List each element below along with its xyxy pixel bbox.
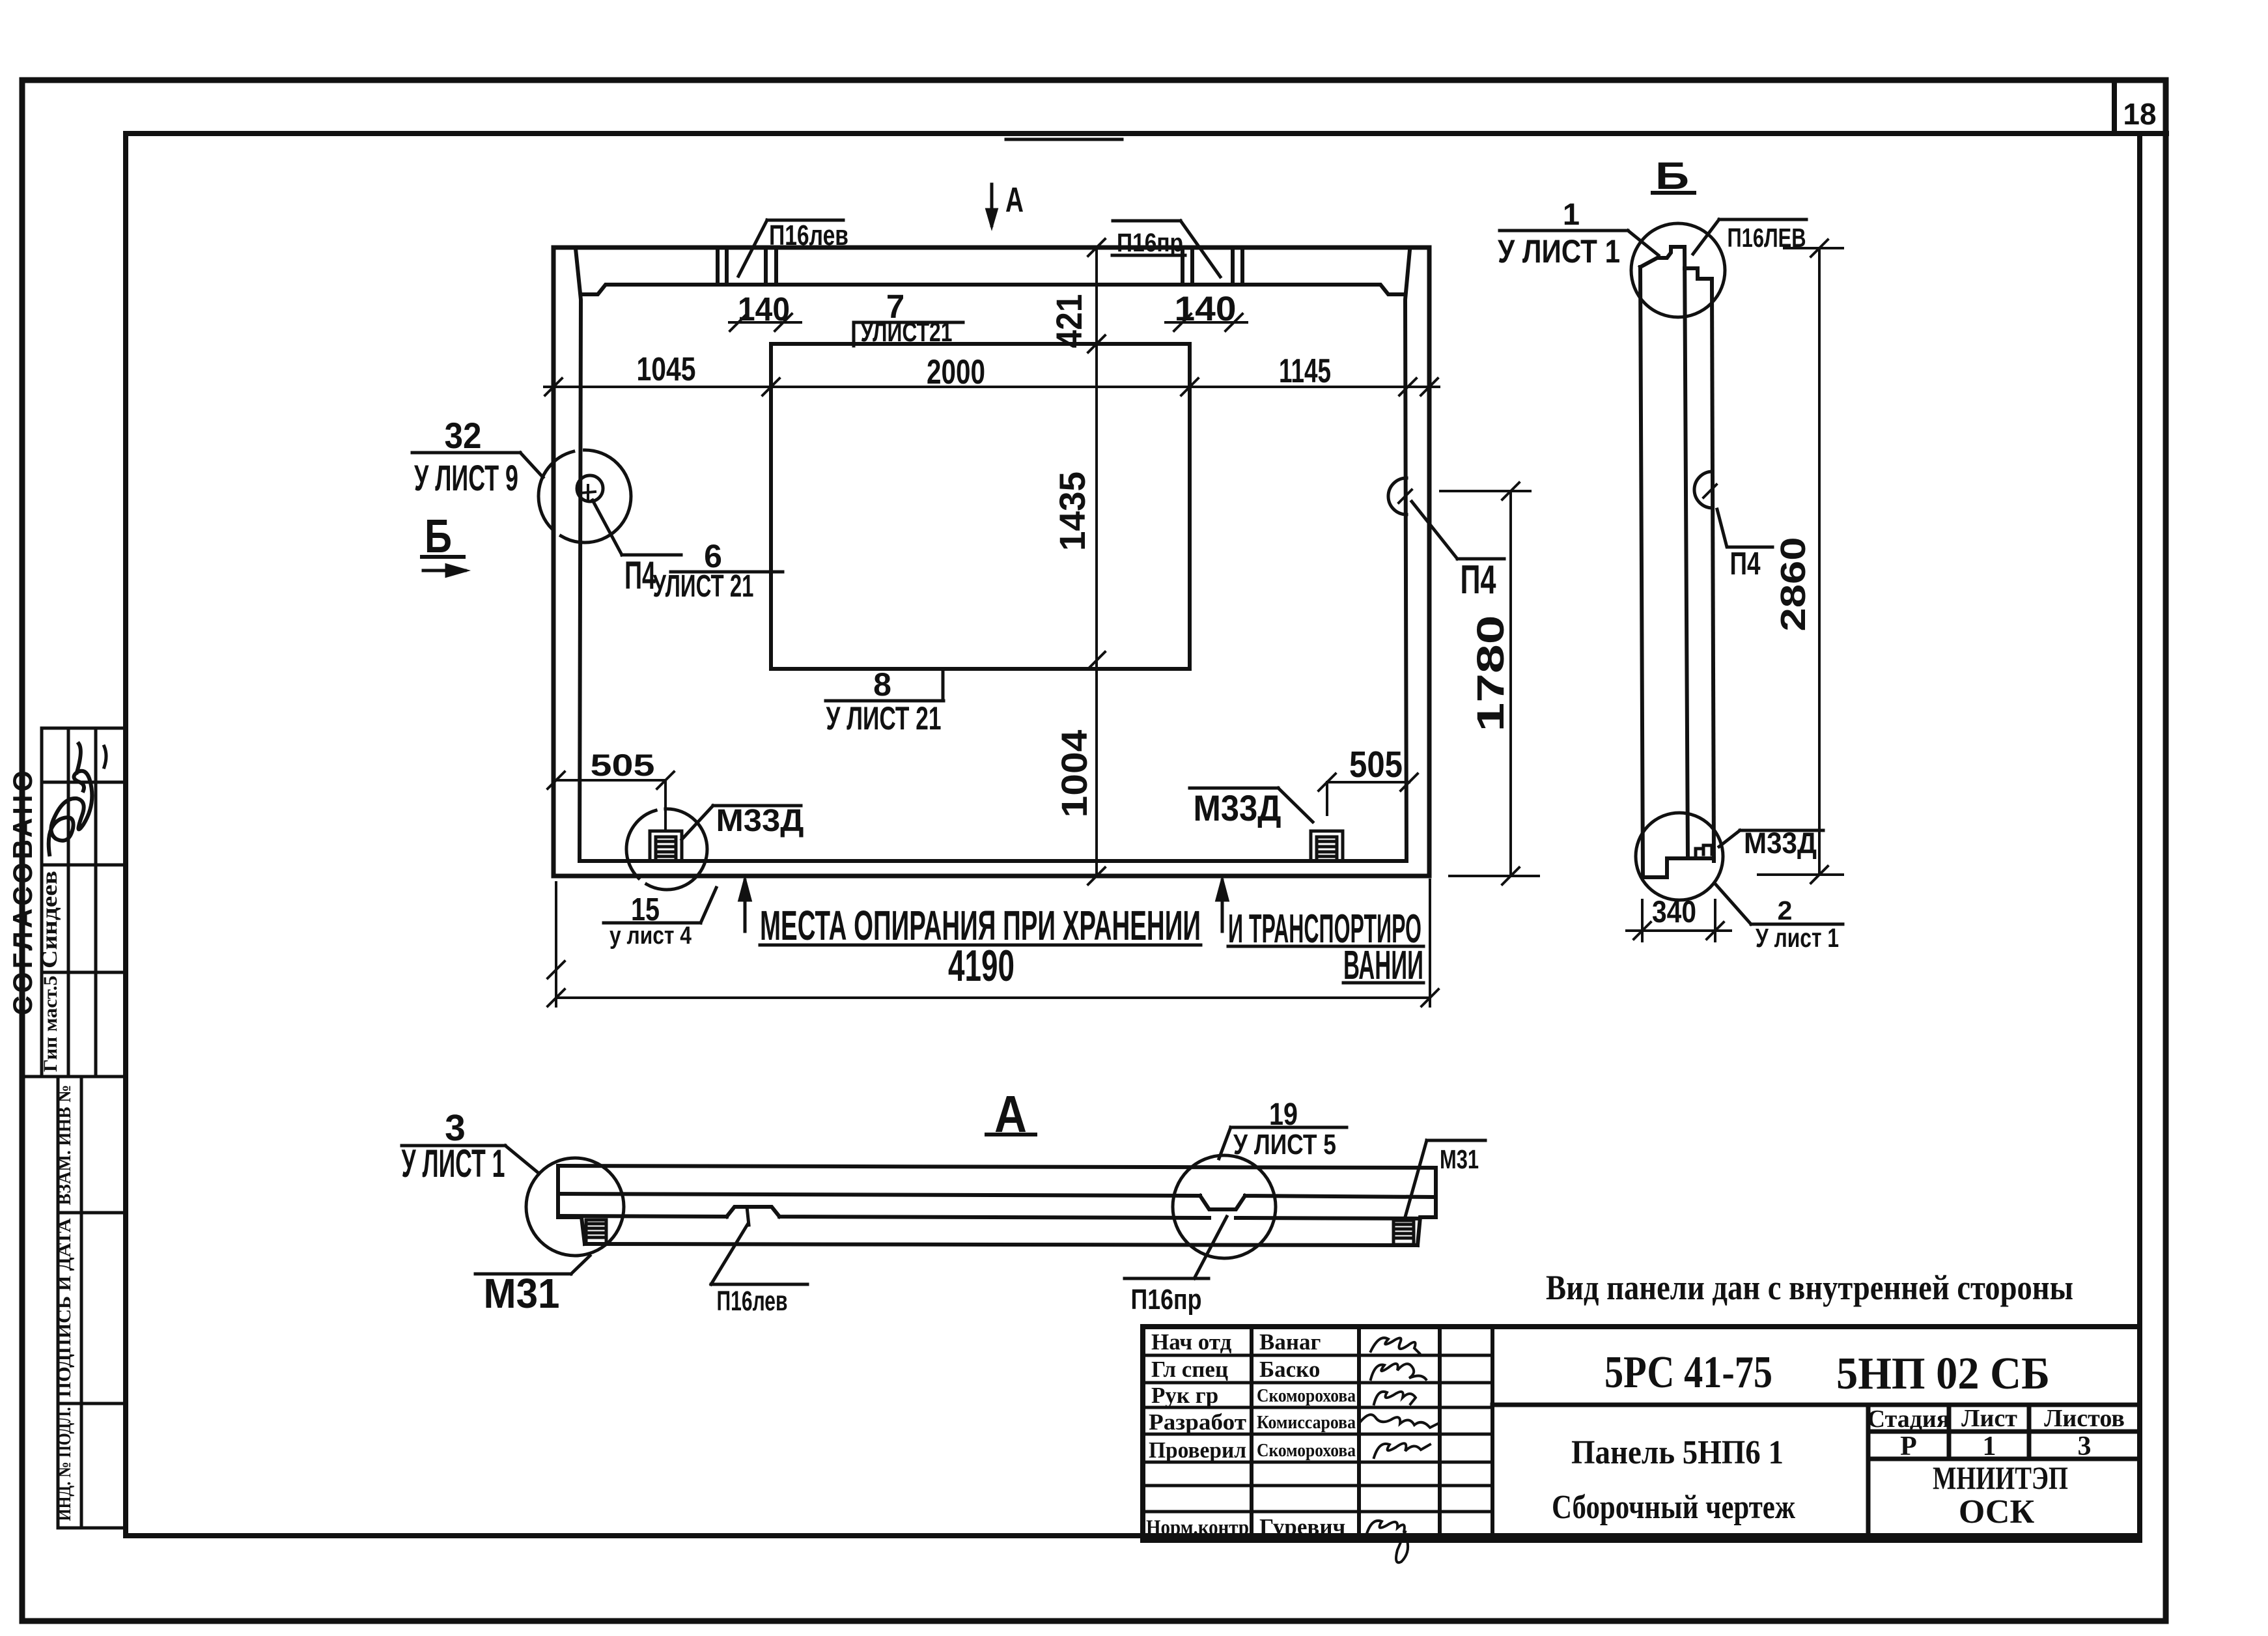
svg-text:Р: Р [1900, 1431, 1917, 1461]
dim 505 right [1319, 774, 1418, 815]
svg-text:Вид панели дан с внутренней ст: Вид панели дан с внутренней стороны [1546, 1268, 2073, 1307]
left stamp lower block grid [58, 1077, 126, 1528]
svg-text:У ЛИСТ 5: У ЛИСТ 5 [1233, 1129, 1336, 1161]
panel outline front view [553, 247, 1429, 876]
svg-text:У ЛИСТ 9: У ЛИСТ 9 [414, 457, 518, 498]
B view right line [1712, 288, 1714, 861]
svg-text:Листов: Листов [2044, 1405, 2125, 1432]
svg-text:2860: 2860 [1774, 537, 1813, 632]
signature Basko [1371, 1364, 1426, 1379]
text underline mesta2 [1228, 945, 1423, 948]
callout M33D B underline leader [1719, 830, 1823, 847]
tick centerline opening top [1088, 335, 1105, 352]
svg-text:Баско: Баско [1259, 1357, 1320, 1382]
svg-text:Нач отд: Нач отд [1151, 1329, 1232, 1355]
B view bottom M33D bracket [1696, 845, 1712, 858]
leader P4 left [593, 500, 681, 555]
A strip bottom line [585, 1244, 1418, 1245]
callout 8 leader [826, 669, 944, 701]
svg-text:СОГЛАСОВАНО: СОГЛАСОВАНО [7, 770, 38, 1015]
signature Skomorokhova 1 [1374, 1392, 1416, 1404]
A section label underline [987, 1133, 1035, 1136]
svg-text:ВЗАМ. ИНВ №: ВЗАМ. ИНВ № [54, 1085, 75, 1206]
callout 6 underline [671, 571, 783, 574]
tick in B P4 [1703, 485, 1716, 498]
panel bottom flange line [580, 859, 1407, 863]
tick P4 right [1399, 490, 1412, 503]
svg-text:Гип маст.5: Гип маст.5 [40, 976, 61, 1072]
svg-text:Б: Б [425, 511, 452, 563]
svg-text:ИНД. № ПОДЛ.: ИНД. № ПОДЛ. [54, 1407, 75, 1521]
svg-text:340: 340 [1652, 894, 1696, 929]
callout 1 ulist1 underline leader [1500, 231, 1659, 255]
svg-text:1145: 1145 [1279, 352, 1331, 390]
tick centerline bottom [1088, 867, 1105, 884]
svg-text:М33Д: М33Д [1194, 787, 1281, 828]
svg-text:М33Д: М33Д [1744, 826, 1817, 860]
A left M31 anchor [586, 1220, 606, 1244]
svg-text:3: 3 [2078, 1431, 2092, 1461]
A strip right cap [1418, 1168, 1436, 1245]
svg-text:ВАНИИ: ВАНИИ [1343, 943, 1423, 988]
svg-text:5РС 41-75: 5РС 41-75 [1604, 1347, 1772, 1398]
signature table rows [1143, 1355, 1492, 1512]
A right detail circle [1173, 1155, 1276, 1258]
section B arrow left [423, 565, 465, 576]
callout P16lev underline and leader [738, 220, 843, 276]
callout M31 left underline leader [475, 1256, 590, 1274]
B bottom detail circle [1636, 813, 1723, 900]
callout 15 line leader [604, 888, 716, 923]
svg-text:Стадия: Стадия [1868, 1405, 1950, 1433]
leader P4 B view [1717, 509, 1772, 547]
svg-text:А: А [994, 1085, 1027, 1143]
dim line 140 right [1166, 314, 1247, 331]
svg-text:П4: П4 [1461, 557, 1496, 602]
callout P16pr underline and leader [1112, 221, 1220, 277]
svg-text:УЛИСТ21: УЛИСТ21 [861, 317, 953, 347]
svg-text:П4: П4 [624, 554, 656, 597]
tick in P4 left [581, 485, 595, 500]
svg-text:4190: 4190 [948, 941, 1015, 991]
dim 2860 [1758, 240, 1843, 883]
svg-text:1435: 1435 [1052, 472, 1093, 551]
B section label underline top right [1653, 191, 1694, 195]
callout M33D left line leader [682, 806, 801, 839]
svg-text:П16пр: П16пр [1131, 1284, 1202, 1316]
svg-text:Гл спец: Гл спец [1151, 1357, 1228, 1382]
svg-text:32: 32 [445, 415, 482, 456]
approval signature squiggle [49, 744, 92, 854]
signature Skomorokhova 2 [1374, 1443, 1430, 1458]
tick centerline top [1088, 239, 1105, 256]
inner frame top doubling dash [1006, 138, 1122, 141]
A strip second line with P16pr dip [558, 1194, 1436, 1209]
svg-text:1780: 1780 [1470, 615, 1512, 732]
svg-text:Сборочный чертеж: Сборочный чертеж [1552, 1489, 1795, 1526]
svg-text:505: 505 [591, 748, 655, 782]
opening rect [771, 344, 1190, 669]
anchor small circle P4 left [577, 475, 603, 501]
A strip left cap [558, 1166, 585, 1244]
anchor M33D right [1311, 831, 1343, 861]
svg-text:1004: 1004 [1054, 730, 1095, 818]
svg-text:Проверил: Проверил [1149, 1437, 1246, 1463]
svg-text:140: 140 [738, 290, 790, 328]
tick centerline opening bottom [1088, 652, 1105, 669]
svg-text:У ЛИСТ 1: У ЛИСТ 1 [1498, 233, 1620, 270]
signature Vanag [1371, 1338, 1420, 1353]
svg-text:Разработ: Разработ [1149, 1409, 1246, 1435]
dim 1780 [1440, 483, 1539, 884]
stamp cell tick [104, 746, 106, 767]
svg-text:У ЛИСТ 1: У ЛИСТ 1 [402, 1142, 505, 1185]
svg-text:8: 8 [873, 666, 891, 703]
section B mark left [422, 555, 464, 559]
callout 19 ulist5 underline leader [1219, 1127, 1347, 1159]
support arrows [740, 881, 1227, 931]
svg-text:Лист: Лист [1961, 1405, 2017, 1432]
svg-text:Гуревич: Гуревич [1259, 1514, 1345, 1540]
svg-text:421: 421 [1048, 294, 1089, 348]
svg-text:Панель 5НП6 1: Панель 5НП6 1 [1571, 1434, 1784, 1471]
callout P16lev A underline leader [711, 1224, 807, 1284]
signature Gurevich [1366, 1521, 1408, 1562]
callout M33D right line leader [1190, 788, 1313, 822]
B view left edge [1640, 267, 1643, 877]
callout P16lev B underline leader [1693, 219, 1806, 254]
extension opening edges up [771, 344, 1190, 387]
svg-text:5НП 02 СБ: 5НП 02 СБ [1836, 1349, 2050, 1399]
callout 32 line and leader [412, 453, 543, 477]
slot lines P16pr [1183, 247, 1242, 285]
svg-text:1: 1 [1983, 1431, 1996, 1461]
text underline mesta3 [1343, 981, 1423, 985]
sheet number box [2114, 80, 2166, 134]
left stamp upper block grid [22, 728, 126, 1077]
svg-text:19: 19 [1269, 1097, 1298, 1132]
P16lev tick A view [747, 1207, 749, 1225]
callout 3 ulist1 underline leader [402, 1146, 539, 1174]
svg-text:1: 1 [1563, 197, 1580, 231]
svg-text:Ванаг: Ванаг [1259, 1329, 1321, 1355]
svg-text:П16пр: П16пр [1117, 229, 1183, 257]
dim 505 left [548, 772, 674, 828]
inner frame [126, 134, 2140, 1536]
svg-text:505: 505 [1349, 744, 1403, 785]
svg-text:УЛИСТ 21: УЛИСТ 21 [653, 569, 754, 604]
detail circle M33D left [626, 809, 707, 890]
svg-text:А: А [1005, 180, 1024, 219]
leader P4 right [1412, 501, 1504, 559]
dim 4190 [548, 880, 1438, 1006]
signature Komissarova [1361, 1415, 1438, 1428]
svg-text:М31: М31 [484, 1270, 560, 1317]
callout 7 box [854, 322, 963, 346]
A right M31 anchor [1393, 1220, 1414, 1245]
panel left rib [576, 249, 581, 861]
B view top notch profile [1640, 247, 1712, 288]
centerline vertical dimension chain [1095, 247, 1098, 876]
panel top flange underside [581, 285, 1405, 294]
panel right rib [1405, 250, 1410, 861]
callout M31 right underline leader [1405, 1140, 1485, 1219]
title block main dividers [1492, 1405, 2140, 1540]
text underline mesta1 [760, 944, 1201, 947]
svg-text:140: 140 [1175, 290, 1237, 328]
B view middle line [1685, 247, 1688, 858]
callout 2 ulist1 underline leader [1715, 884, 1843, 924]
svg-text:П16ЛЕВ: П16ЛЕВ [1728, 223, 1806, 253]
detail circle P4 left [539, 450, 631, 543]
svg-text:2000: 2000 [927, 353, 985, 391]
title block outline [1143, 1327, 2140, 1540]
dim line 140 left [729, 314, 801, 331]
anchor M33D left [650, 831, 682, 861]
slot lines P16lev [718, 247, 776, 285]
svg-text:Скоморохова: Скоморохова [1257, 1386, 1356, 1406]
callout P16pr A underline leader [1125, 1217, 1227, 1278]
svg-text:МНИИТЭП: МНИИТЭП [1933, 1460, 2068, 1496]
svg-text:1045: 1045 [637, 350, 696, 388]
svg-text:ПОДПИСЬ И ДАТА: ПОДПИСЬ И ДАТА [54, 1218, 75, 1397]
svg-text:Комиссарова: Комиссарова [1257, 1413, 1356, 1433]
svg-text:ОСК: ОСК [1959, 1493, 2035, 1530]
horizontal dimension line 1045-2000-1145 [544, 386, 1439, 388]
svg-text:П16лев: П16лев [717, 1286, 788, 1317]
svg-text:Б: Б [1655, 155, 1689, 197]
svg-text:У лист 1: У лист 1 [1756, 923, 1839, 953]
A left detail circle [526, 1158, 624, 1256]
ticks horizontal dim [545, 378, 1438, 395]
small circle P4 right edge [1388, 478, 1407, 515]
svg-text:Норм.контр: Норм.контр [1146, 1516, 1249, 1540]
svg-text:У ЛИСТ 21: У ЛИСТ 21 [826, 700, 942, 737]
A strip top line [558, 1166, 1436, 1168]
B view bottom profile [1643, 858, 1714, 877]
svg-text:Рук гр: Рук гр [1151, 1383, 1218, 1408]
signature table columns [1252, 1327, 1492, 1540]
dim 340 [1627, 900, 1731, 941]
svg-text:18: 18 [2123, 97, 2156, 131]
svg-text:у лист 4: у лист 4 [609, 922, 692, 950]
svg-text:Скоморохова: Скоморохова [1257, 1441, 1356, 1461]
svg-text:2: 2 [1778, 896, 1793, 925]
svg-text:М31: М31 [1440, 1144, 1479, 1174]
section A arrow top [987, 184, 996, 225]
svg-text:М33Д: М33Д [716, 804, 804, 838]
svg-text:П16лев: П16лев [769, 219, 848, 251]
A strip third line with P16lev bump [559, 1207, 1420, 1219]
B view P4 semicircle [1694, 472, 1713, 508]
svg-text:П4: П4 [1730, 546, 1761, 582]
svg-text:Синдеев: Синдеев [38, 871, 62, 968]
B top detail circle [1631, 223, 1725, 317]
